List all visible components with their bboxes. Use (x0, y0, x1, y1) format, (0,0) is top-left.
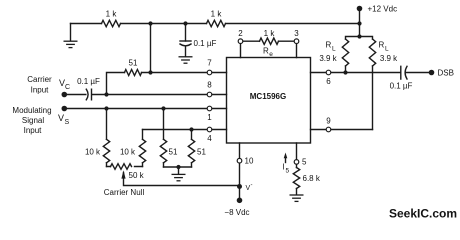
svg-text:50 k: 50 k (129, 171, 145, 180)
svg-text:7: 7 (207, 59, 212, 68)
svg-text:0.1 µF: 0.1 µF (390, 82, 413, 91)
svg-text:10 k: 10 k (120, 148, 136, 157)
svg-text:5: 5 (302, 158, 307, 167)
svg-text:L: L (385, 46, 389, 53)
svg-text:51: 51 (169, 148, 178, 157)
svg-text:I: I (283, 163, 285, 172)
svg-text:R: R (326, 41, 332, 50)
svg-text:3.9 k: 3.9 k (319, 54, 337, 63)
svg-text:Carrier: Carrier (27, 75, 52, 84)
svg-text:8: 8 (207, 81, 212, 90)
svg-text:4: 4 (207, 134, 212, 143)
svg-text:C: C (65, 84, 70, 91)
svg-text:+12 Vdc: +12 Vdc (368, 5, 398, 14)
svg-text:Modulating: Modulating (12, 106, 51, 115)
svg-text:-: - (251, 183, 253, 189)
svg-text:V: V (58, 113, 64, 123)
svg-text:MC1596G: MC1596G (250, 92, 286, 101)
svg-text:1 k: 1 k (106, 10, 118, 19)
svg-text:1 k: 1 k (211, 10, 223, 19)
svg-text:5: 5 (286, 168, 290, 175)
svg-text:6: 6 (326, 77, 331, 86)
svg-text:51: 51 (197, 148, 206, 157)
svg-text:Carrier Null: Carrier Null (104, 188, 145, 197)
svg-text:2: 2 (238, 29, 243, 38)
svg-text:R: R (379, 41, 385, 50)
svg-text:0.1 µF: 0.1 µF (77, 77, 100, 86)
svg-text:SeekIC.com: SeekIC.com (389, 207, 457, 221)
svg-text:e: e (269, 51, 273, 58)
svg-text:Input: Input (31, 86, 50, 95)
svg-text:3.9 k: 3.9 k (380, 54, 398, 63)
svg-text:0.1 µF: 0.1 µF (194, 39, 217, 48)
svg-text:6.8 k: 6.8 k (303, 174, 321, 183)
svg-text:−8 Vdc: −8 Vdc (224, 208, 249, 217)
svg-text:Signal: Signal (22, 116, 44, 125)
svg-text:10: 10 (245, 157, 254, 166)
svg-text:3: 3 (294, 29, 299, 38)
svg-text:S: S (65, 119, 70, 126)
svg-text:DSB: DSB (438, 69, 454, 78)
svg-text:L: L (332, 46, 336, 53)
svg-text:9: 9 (326, 117, 331, 126)
svg-text:1: 1 (207, 113, 212, 122)
svg-text:10 k: 10 k (85, 148, 101, 157)
svg-text:51: 51 (129, 59, 138, 68)
svg-text:Input: Input (24, 126, 43, 135)
svg-text:1 k: 1 k (264, 29, 276, 38)
svg-text:R: R (263, 47, 269, 56)
